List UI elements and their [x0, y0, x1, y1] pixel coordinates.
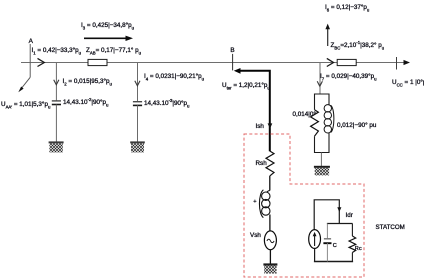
label ZBC value: [331, 42, 385, 49]
label UCC value: [392, 79, 424, 86]
current arrow I6 up: [327, 28, 329, 47]
impedance ZAB box: [88, 59, 107, 65]
arrowhead of UAA' diagonal: [18, 87, 23, 93]
label Uter value: [222, 82, 270, 89]
current direction chevron I5 on bus before ZBC: [327, 58, 334, 66]
arrowhead I7 down: [317, 81, 322, 86]
label STATCOM: [376, 224, 405, 231]
wire diagonal for UAA' measurement: [21, 77, 31, 89]
arrowhead I4 down: [135, 81, 140, 86]
capacitor C dc link: [326, 224, 328, 239]
arrowhead I2 down: [54, 80, 59, 85]
node B tick: [232, 54, 234, 71]
label UAA' value: [1, 101, 50, 108]
wire shunt branch I4: [137, 63, 139, 102]
wire RL block to ground: [320, 153, 322, 167]
ground G1: [49, 141, 64, 143]
label I2 value: [63, 78, 112, 85]
wire Rsh to Lsh: [269, 176, 271, 191]
wire DC-side bottom: [314, 261, 353, 263]
source Vsh: [264, 231, 276, 250]
label Rsh: [256, 160, 267, 167]
ground G2: [130, 141, 145, 143]
label capacitor A value: [63, 99, 108, 106]
label load resistance value: [293, 111, 316, 118]
arrowhead Idr down: [337, 207, 341, 212]
impedance ZBC box: [337, 59, 356, 65]
arrowhead Ish down on shunt wire: [268, 123, 273, 128]
label capacitor B value: [144, 100, 189, 107]
wire shunt branch I7: [319, 63, 321, 94]
label I4 value: [144, 73, 204, 80]
current arrow I3 above bus: [84, 37, 127, 39]
label Idr: [346, 212, 353, 219]
label I6 value: [325, 4, 369, 11]
wire Lsh to Vsh: [269, 215, 271, 232]
resistor Rc: [351, 224, 353, 237]
wire thick Uter arrow into node B: [239, 71, 270, 151]
label plus sign of Lsh: [253, 199, 256, 206]
wire DC-side inner top: [327, 223, 353, 225]
wire source to bottom: [314, 248, 316, 261]
inductor Lsh coil: [262, 192, 270, 200]
wire DC-side top: [314, 200, 339, 230]
node A tick: [29, 44, 31, 77]
current direction chevron I1 on bus: [38, 58, 45, 66]
ground G3: [263, 263, 277, 265]
label Ish: [256, 123, 264, 130]
label C: [333, 243, 337, 250]
label load inductance value: [337, 122, 376, 129]
resistor 0,014 zigzag left side: [311, 110, 319, 137]
wire capacitor to ground: [137, 105, 139, 141]
label ZAB value: [86, 47, 141, 54]
current source Ish circle: [309, 230, 321, 249]
label Rc: [355, 246, 362, 253]
label I1 value: [32, 47, 82, 54]
capacitor C-A (14,43.10-2): [52, 100, 61, 102]
label I7 value: [320, 73, 377, 80]
node C tick: [396, 57, 398, 70]
ground G4: [314, 166, 330, 168]
node label A: [29, 38, 33, 45]
wire capacitor to ground: [55, 105, 57, 142]
label I3 value: [81, 22, 134, 29]
wire Vsh to ground: [269, 250, 271, 264]
label Vsh: [250, 232, 261, 239]
STATCOM boundary red dashed box: [244, 134, 364, 277]
inductor 0,012 coil right side: [324, 105, 331, 112]
load RL block frame: [315, 94, 330, 153]
wire shunt branch I2: [55, 63, 57, 101]
node label B: [230, 47, 234, 54]
resistor Rsh: [266, 151, 274, 176]
capacitor C-B (14,43.10-3): [133, 101, 142, 103]
wire main bus A-B-C: [21, 62, 406, 64]
arrowhead at right end of bus toward C': [404, 60, 411, 65]
